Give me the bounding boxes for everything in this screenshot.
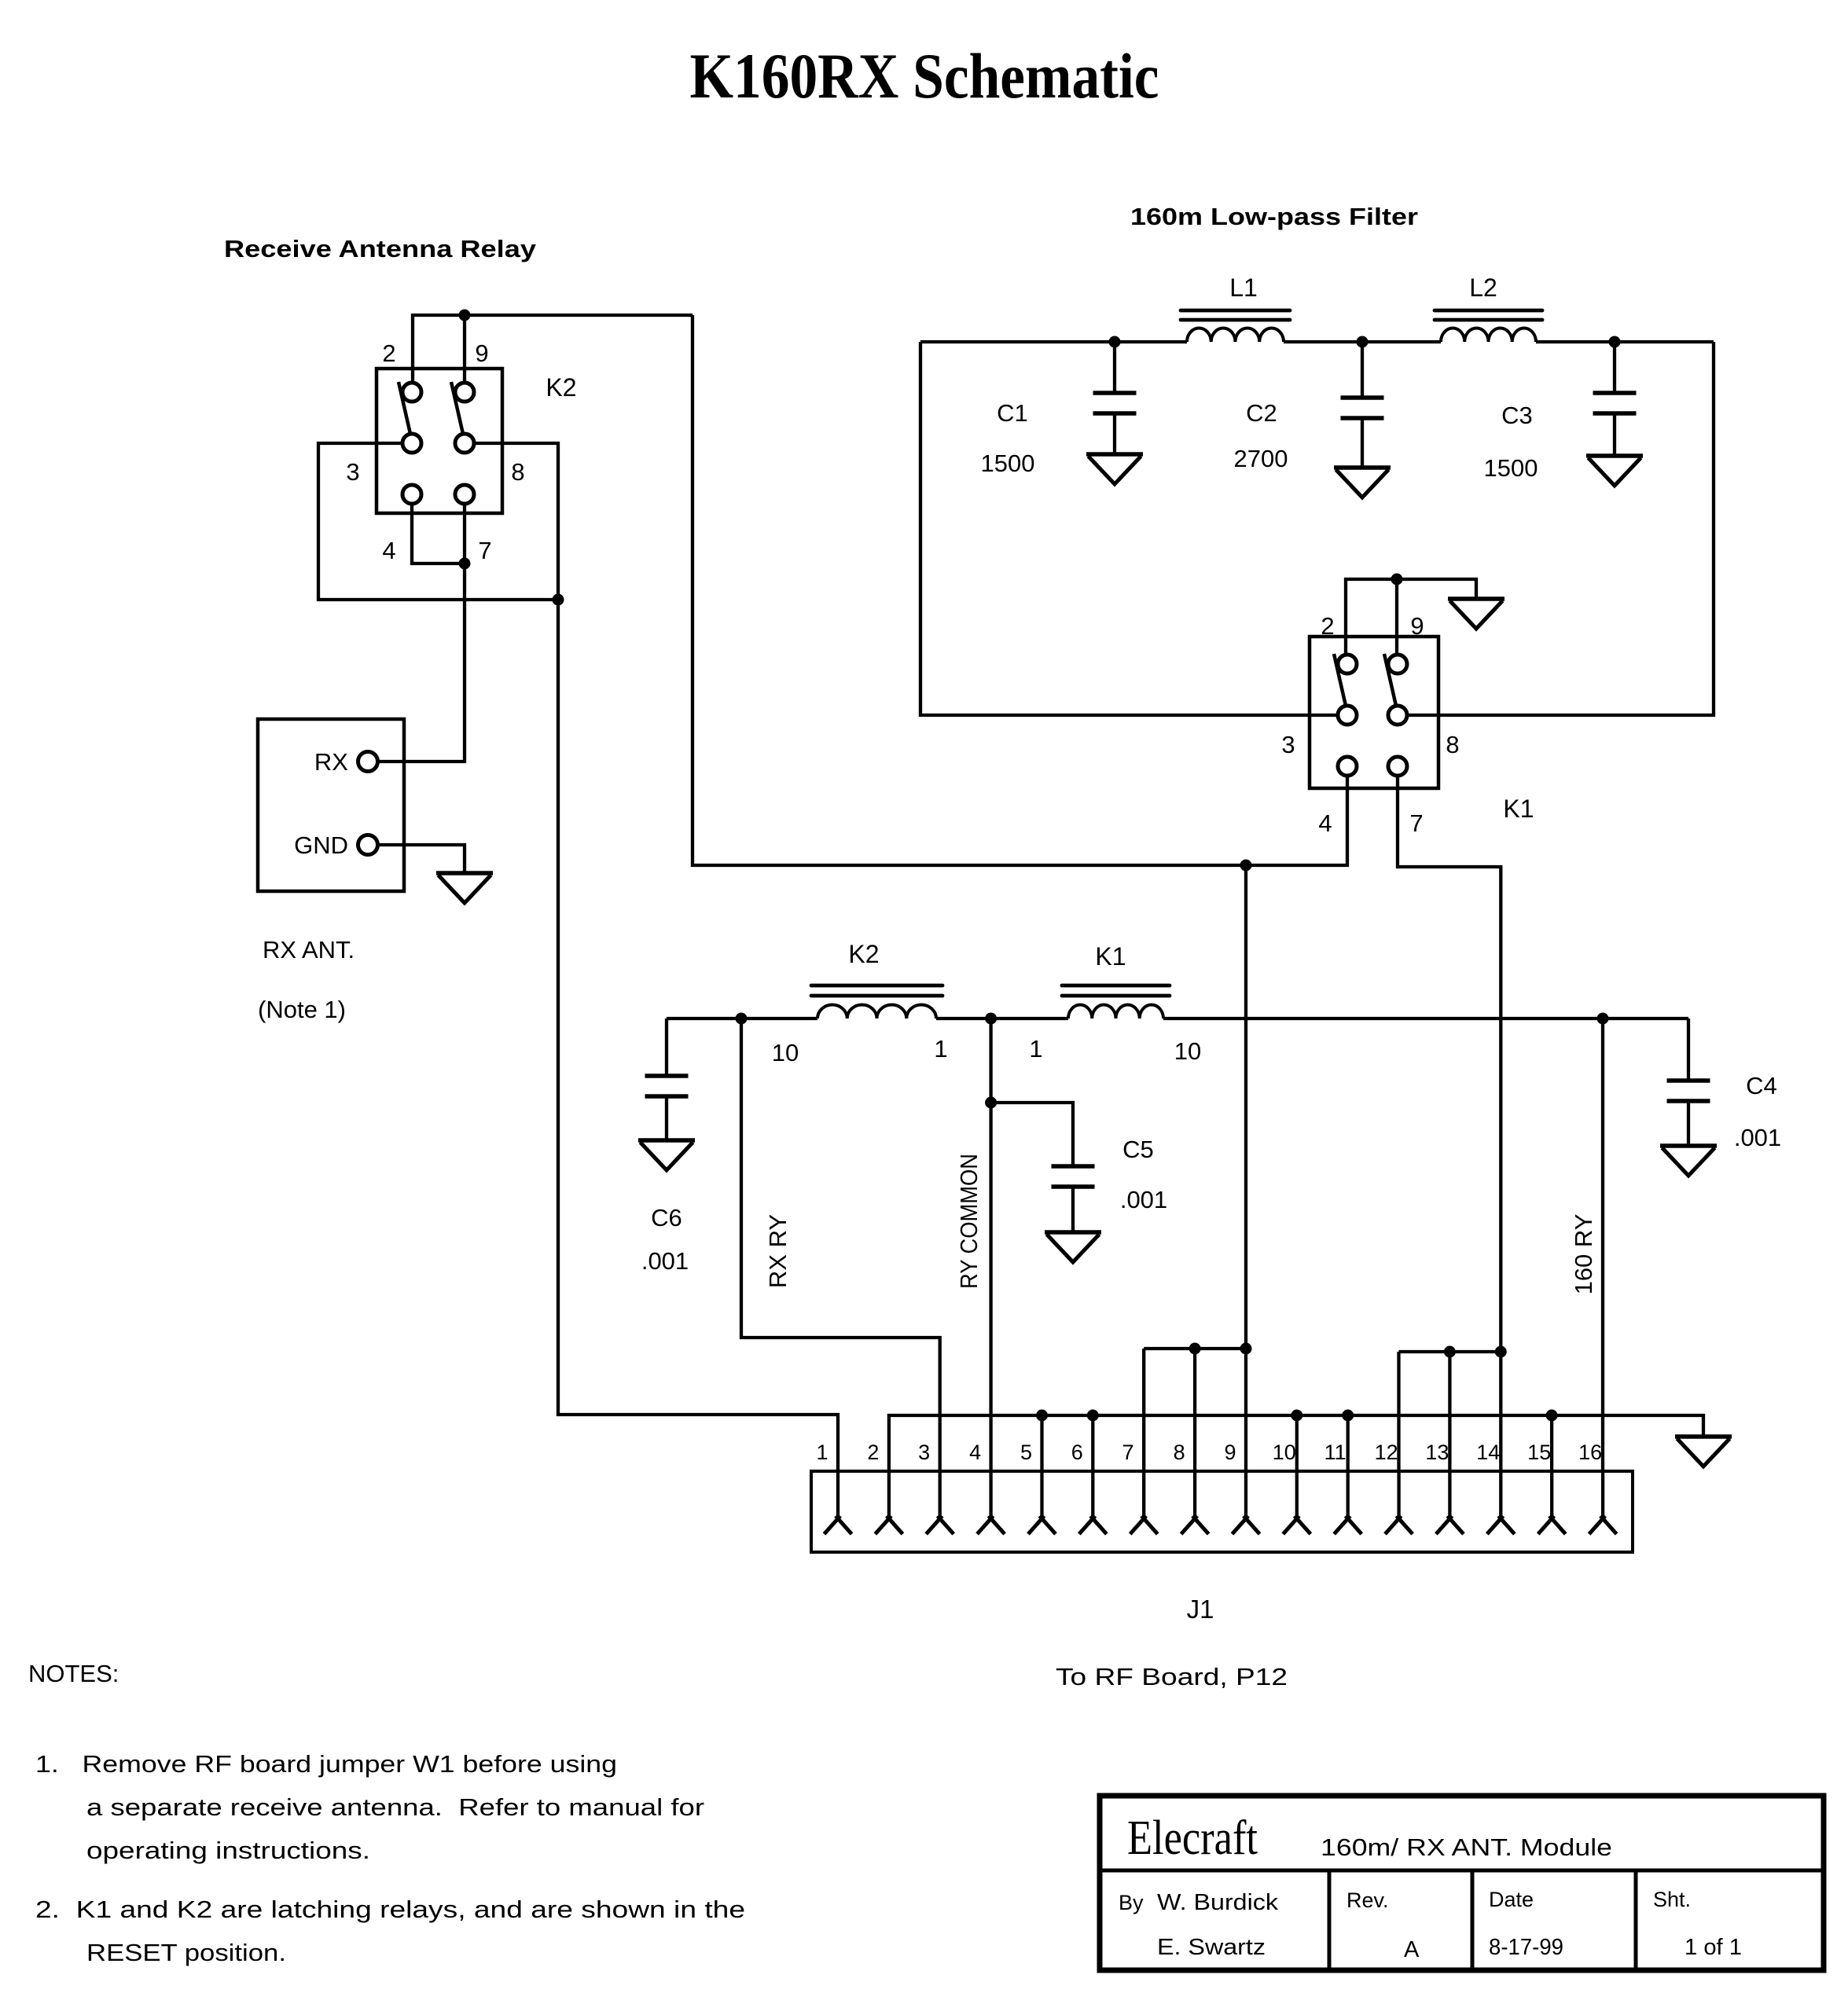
- wire J1 pin 15 stub: [1550, 1415, 1553, 1471]
- connector RX ANT: [258, 719, 404, 891]
- wire K2 pins 2-9 top bus: [413, 315, 693, 383]
- svg-text:(Note 1): (Note 1): [258, 996, 346, 1023]
- svg-text:1 of 1: 1 of 1: [1685, 1935, 1742, 1960]
- wire filter right edge: [1408, 342, 1714, 715]
- relay K1: [1310, 637, 1438, 788]
- svg-text:C1: C1: [997, 399, 1028, 427]
- junction pins bus pin 8: [1189, 1343, 1201, 1355]
- svg-text:2. K1 and K2 are latching rel: 2. K1 and K2 are latching relays, and ar…: [35, 1896, 745, 1923]
- wire relay coil rail: [667, 1017, 1688, 1020]
- svg-text:L1: L1: [1229, 273, 1258, 302]
- junction RY COMMON C5 tap: [985, 1097, 997, 1109]
- svg-text:8: 8: [1174, 1441, 1185, 1464]
- svg-text:15: 15: [1527, 1441, 1551, 1464]
- svg-text:a separate receive antenna. R: a separate receive antenna. Refer to man…: [86, 1793, 704, 1821]
- wire J1 pin 5 stub: [1040, 1415, 1043, 1471]
- svg-text:operating instructions.: operating instructions.: [86, 1837, 370, 1864]
- ground C6: [638, 1140, 695, 1170]
- junction K2 outer loop to J1 pin 1: [553, 594, 564, 606]
- svg-text:12: 12: [1375, 1441, 1398, 1464]
- capacitor C6: [645, 1076, 689, 1096]
- svg-text:1. Remove RF board jumper W1: 1. Remove RF board jumper W1 before usin…: [35, 1750, 617, 1778]
- capacitor C4 leads: [1687, 1019, 1690, 1146]
- wire RX RY to J1 pin 3: [741, 1019, 940, 1471]
- wire 160 RY to J1 pin 16: [1601, 1019, 1604, 1471]
- junction ground bus pin 11: [1342, 1410, 1354, 1422]
- junction top rail C1: [1109, 336, 1121, 348]
- wire J1 pin 10 stub: [1295, 1415, 1299, 1471]
- svg-text:4: 4: [969, 1441, 981, 1464]
- junction K1 top bus pin 9: [1391, 574, 1403, 585]
- junction ground bus pin 10: [1291, 1410, 1302, 1422]
- svg-text:RY COMMON: RY COMMON: [955, 1154, 983, 1289]
- svg-text:3: 3: [1281, 731, 1295, 758]
- ground C1: [1086, 454, 1143, 484]
- wire filter left edge: [920, 342, 1338, 715]
- svg-text:5: 5: [1020, 1441, 1032, 1464]
- wire K2 pin 4 jumper: [412, 505, 463, 564]
- svg-text:K1: K1: [1095, 942, 1126, 971]
- junction top rail C2: [1357, 336, 1369, 348]
- svg-text:Rev.: Rev.: [1347, 1888, 1389, 1912]
- junction pins bus pin 13: [1444, 1346, 1456, 1358]
- capacitor C1: [1093, 393, 1137, 413]
- svg-text:L2: L2: [1469, 273, 1497, 302]
- wire J1 pin 6 stub: [1091, 1415, 1094, 1471]
- svg-text:NOTES:: NOTES:: [28, 1660, 119, 1687]
- svg-text:7: 7: [1409, 809, 1423, 837]
- svg-text:W. Burdick: W. Burdick: [1157, 1890, 1279, 1915]
- svg-text:10: 10: [772, 1039, 799, 1066]
- junction K2 top bus pin 9: [459, 310, 471, 321]
- svg-text:E. Swartz: E. Swartz: [1157, 1935, 1266, 1960]
- wire K2 pins 3-8 outer loop: [318, 443, 558, 600]
- svg-text:K2: K2: [848, 940, 879, 968]
- svg-text:13: 13: [1425, 1441, 1449, 1464]
- svg-text:160 RY: 160 RY: [1570, 1214, 1597, 1295]
- ground C3: [1586, 456, 1643, 486]
- junction ground bus pin 6: [1087, 1410, 1099, 1422]
- wire J1 pins 7-9 bus: [1144, 1349, 1246, 1471]
- svg-text:9: 9: [475, 340, 488, 367]
- svg-text:C6: C6: [651, 1204, 682, 1231]
- svg-text:8: 8: [511, 458, 524, 486]
- svg-text:.001: .001: [1734, 1124, 1781, 1151]
- svg-text:Sht.: Sht.: [1653, 1888, 1691, 1911]
- svg-text:A: A: [1404, 1937, 1420, 1962]
- svg-text:160m/ RX ANT. Module: 160m/ RX ANT. Module: [1321, 1833, 1612, 1861]
- svg-text:RX: RX: [314, 748, 348, 776]
- svg-text:3: 3: [918, 1441, 930, 1464]
- svg-text:C3: C3: [1501, 402, 1533, 429]
- svg-text:4: 4: [382, 537, 395, 564]
- junction top rail C3: [1609, 336, 1621, 348]
- svg-text:10: 10: [1273, 1441, 1296, 1464]
- junction rail RY COMMON: [985, 1013, 997, 1025]
- wire K1 pins 2-9 ground bus: [1346, 579, 1476, 655]
- relay coil K2: [811, 985, 942, 1019]
- wire K2 outer loop to J1 pin 1: [558, 600, 838, 1471]
- svg-text:8-17-99: 8-17-99: [1489, 1935, 1563, 1960]
- svg-text:By: By: [1119, 1891, 1144, 1914]
- ground C2: [1334, 468, 1391, 497]
- svg-text:J1: J1: [1187, 1595, 1214, 1624]
- svg-text:9: 9: [1224, 1441, 1236, 1464]
- junction relay drive to J1 pin 9 riser: [1240, 860, 1252, 872]
- svg-text:RX RY: RX RY: [764, 1214, 792, 1288]
- svg-text:1500: 1500: [1484, 454, 1538, 482]
- svg-text:10: 10: [1174, 1037, 1201, 1065]
- capacitor C6 leads: [665, 1019, 668, 1140]
- svg-text:K1: K1: [1503, 795, 1534, 823]
- svg-text:K160RX Schematic: K160RX Schematic: [690, 40, 1159, 112]
- svg-text:Date: Date: [1489, 1888, 1534, 1911]
- svg-text:C5: C5: [1122, 1136, 1154, 1163]
- svg-text:6: 6: [1071, 1441, 1083, 1464]
- relay coil K1: [1062, 985, 1170, 1019]
- wire J1 pins 12-14 bus: [1399, 1352, 1501, 1471]
- svg-text:2: 2: [382, 340, 395, 367]
- svg-text:Elecraft: Elecraft: [1127, 1811, 1258, 1865]
- inductor L1: [1181, 310, 1290, 342]
- svg-text:11: 11: [1324, 1441, 1347, 1464]
- capacitor C3: [1593, 393, 1637, 413]
- capacitor C4: [1667, 1081, 1710, 1101]
- junction K2 pins 4-7: [459, 558, 471, 570]
- wire filter top rail: [920, 340, 1714, 343]
- svg-text:RESET position.: RESET position.: [86, 1939, 286, 1966]
- svg-text:1: 1: [816, 1441, 828, 1464]
- connector J1: [811, 1471, 1633, 1552]
- inductor L2: [1435, 310, 1542, 342]
- svg-text:16: 16: [1578, 1441, 1602, 1464]
- junction rail 160 RY: [1597, 1013, 1609, 1025]
- svg-text:2: 2: [867, 1441, 879, 1464]
- svg-text:9: 9: [1410, 612, 1424, 640]
- J1 pin number labels 1-16: [816, 1441, 1602, 1464]
- wire ground bus J1 pin 2: [889, 1415, 1703, 1471]
- capacitor C3 leads: [1613, 342, 1616, 456]
- ground C5: [1045, 1232, 1101, 1262]
- junction rail RX RY: [736, 1013, 748, 1025]
- svg-text:RX ANT.: RX ANT.: [263, 936, 355, 963]
- relay K2: [377, 369, 502, 513]
- junction pins bus pin 14: [1495, 1346, 1507, 1358]
- capacitor C2 leads: [1361, 342, 1364, 468]
- svg-text:7: 7: [1122, 1441, 1134, 1464]
- capacitor C5: [1052, 1166, 1095, 1187]
- junction ground bus pin 15: [1546, 1410, 1558, 1422]
- svg-text:C4: C4: [1746, 1072, 1777, 1099]
- svg-text:K2: K2: [546, 373, 576, 402]
- wire K2 bus to K1 pin 4: [693, 315, 1347, 865]
- svg-text:14: 14: [1476, 1441, 1500, 1464]
- title block frame: [1100, 1796, 1824, 1970]
- wire K2 pin 7 to RX: [377, 505, 465, 762]
- wire K1 pin 7 to J1 pins 12-14: [1398, 776, 1501, 1472]
- junction ground bus pin 5: [1036, 1410, 1048, 1422]
- svg-text:8: 8: [1446, 731, 1459, 758]
- capacitor C1 leads: [1113, 342, 1116, 454]
- ground J1 bus: [1675, 1437, 1732, 1466]
- svg-text:3: 3: [346, 458, 359, 486]
- ground RX ANT: [436, 873, 493, 903]
- svg-text:Receive Antenna Relay: Receive Antenna Relay: [224, 235, 537, 262]
- capacitor C5 leads: [991, 1103, 1073, 1232]
- wire J1 pin 11 stub: [1347, 1415, 1350, 1471]
- junction pins bus pin 9: [1240, 1343, 1252, 1355]
- svg-text:1500: 1500: [981, 450, 1035, 477]
- capacitor C2: [1341, 398, 1384, 418]
- wire J1 pin 9 riser: [1244, 865, 1247, 1471]
- svg-text:C2: C2: [1246, 399, 1277, 427]
- svg-text:To RF Board, P12: To RF Board, P12: [1056, 1663, 1288, 1690]
- svg-text:1: 1: [934, 1035, 947, 1063]
- svg-text:1: 1: [1029, 1035, 1042, 1063]
- svg-text:2: 2: [1321, 612, 1334, 640]
- svg-text:2700: 2700: [1234, 445, 1288, 472]
- svg-text:4: 4: [1318, 809, 1332, 837]
- svg-text:.001: .001: [641, 1247, 689, 1275]
- ground K1 contacts: [1448, 599, 1504, 629]
- svg-text:GND: GND: [294, 831, 348, 859]
- wire RY COMMON to J1 pin 4: [989, 1019, 992, 1471]
- svg-text:7: 7: [478, 537, 491, 564]
- svg-text:.001: .001: [1120, 1186, 1167, 1213]
- svg-text:160m Low-pass Filter: 160m Low-pass Filter: [1130, 203, 1418, 230]
- wire GND to ground: [377, 845, 465, 873]
- ground C4: [1660, 1146, 1717, 1176]
